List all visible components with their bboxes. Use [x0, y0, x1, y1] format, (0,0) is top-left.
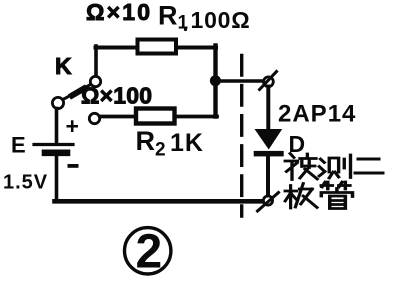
- battery E positive plate (long thin): [34, 143, 73, 146]
- 极: [285, 184, 317, 209]
- wire: R2 right lead to right vertical: [175, 115, 218, 119]
- label R1 100Ω (value label): [158, 1, 251, 34]
- switch K arm (blade with thick middle): [63, 85, 91, 100]
- svg-text:100Ω: 100Ω: [191, 7, 251, 33]
- svg-text:1.5V: 1.5V: [3, 172, 48, 194]
- battery E negative plate (short thick): [45, 150, 67, 157]
- svg-text:2AP14: 2AP14: [278, 101, 356, 128]
- switch K pole contact circle: [52, 97, 63, 108]
- svg-text:2: 2: [155, 140, 166, 161]
- wire: upper terminal down to diode anode: [266, 87, 270, 131]
- lower probe terminal (circle with slash): [263, 196, 272, 205]
- upper probe terminal (circle with slash): [264, 77, 274, 87]
- diode D cathode bar: [254, 151, 284, 157]
- label − (battery polarity): [68, 164, 79, 168]
- resistor R1 body: [138, 40, 177, 54]
- svg-text:1K: 1K: [170, 129, 204, 157]
- wire: from lower contact to R2 left lead: [101, 115, 138, 119]
- svg-text:2: 2: [136, 226, 163, 279]
- svg-text:K: K: [55, 53, 72, 79]
- wire: junction to upper probe terminal: [218, 79, 263, 83]
- diode D (2AP14) triangle anode: [255, 129, 283, 150]
- resistor R2 body: [136, 109, 175, 124]
- wire: diode cathode down to lower probe terminal: [266, 156, 270, 196]
- 管: [321, 182, 352, 209]
- 测: [319, 155, 350, 178]
- wire: top horizontal from switch branch to right vertical: [96, 46, 217, 50]
- dashed boundary line: [240, 56, 243, 217]
- svg-text:Ω×10: Ω×10: [86, 0, 152, 25]
- wire: battery negative down to bottom wire: [55, 156, 59, 201]
- figure number ②: [125, 228, 171, 274]
- svg-text:R: R: [136, 126, 156, 156]
- wire: right vertical joining top wire, junction and R2 branch: [213, 46, 217, 117]
- switch lower contact circle (Ω×100 branch): [89, 113, 99, 123]
- svg-text:E: E: [11, 133, 26, 158]
- label R2 1K (value label): [136, 126, 204, 161]
- svg-text:R: R: [158, 1, 178, 31]
- 二: [355, 159, 383, 173]
- wire: vertical from top wire down to switch upper contact: [94, 46, 98, 76]
- wire: bottom horizontal from battery to lower terminal: [55, 199, 263, 204]
- junction node (solder dot): [210, 75, 221, 86]
- svg-text:Ω×100: Ω×100: [81, 83, 152, 109]
- svg-text:+: +: [66, 113, 79, 139]
- wire: switch pole down to battery positive plate: [55, 109, 59, 144]
- label 被测二极管 (diode under test), hand-drawn strokes: 被: [285, 154, 317, 180]
- switch K upper contact circle: [90, 76, 100, 86]
